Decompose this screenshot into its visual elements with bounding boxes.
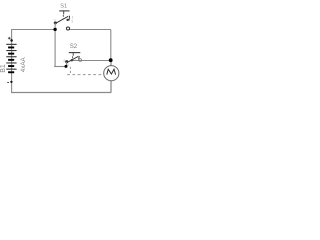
svg-text:2: 2 (54, 19, 56, 23)
S1 lower pin circle (66, 27, 69, 30)
svg-text:4xAA: 4xAA (20, 57, 27, 73)
battery plate short 3 (8, 59, 14, 61)
wire motor top pin (110, 60, 112, 66)
S2 left pin riser (66, 62, 68, 67)
S1 plunger stem (63, 11, 65, 14)
svg-text:2: 2 (63, 59, 65, 63)
wire S2 left horizontal (54, 66, 67, 68)
wire motor bottom pin (110, 81, 112, 93)
switch S1 (53, 4, 73, 31)
ratsnest dashed S2 to motor (69, 67, 71, 74)
battery plate long 3 (6, 56, 16, 57)
svg-text:S2: S2 (70, 44, 78, 50)
battery B1 (0, 37, 27, 83)
svg-text:1: 1 (74, 56, 76, 60)
S1 left pin riser (54, 23, 56, 30)
motor M1 (104, 58, 119, 80)
S1 right contact (66, 19, 68, 21)
battery bottom pin dot (10, 81, 12, 83)
battery top pin dot (10, 39, 13, 42)
S2 left contact (65, 60, 68, 63)
switch S2 (63, 44, 81, 68)
wire right vertical (110, 30, 112, 61)
motor junction dot (109, 58, 113, 62)
battery plate long 2 (6, 50, 16, 51)
S1 junction dot (53, 28, 56, 31)
battery minus sign (7, 81, 9, 83)
S2 lever end tick (78, 56, 81, 61)
battery plate short 5 (8, 71, 14, 73)
battery plate long 1 (6, 44, 16, 45)
S2 junction dot (65, 65, 68, 68)
S1 plunger dashed link (62, 15, 64, 19)
battery plus sign (8, 37, 11, 40)
motor letter M (107, 69, 116, 74)
S1 left contact (54, 21, 57, 24)
svg-text:S1: S1 (60, 4, 67, 10)
wire left vertical (11, 30, 13, 94)
S2 lever (68, 56, 79, 62)
motor body circle (104, 66, 119, 81)
battery plate long 5 (6, 69, 16, 70)
battery plate short 4 (8, 65, 14, 67)
wire top right (70, 29, 111, 31)
battery plate short 2 (8, 53, 14, 55)
S2 plunger stem (72, 53, 74, 56)
S2 right contact (71, 59, 73, 61)
S1 plunger cap (59, 10, 69, 12)
S2 plunger dashed link (72, 56, 74, 60)
wire S2 branch vertical (54, 30, 57, 67)
S1 lever end tick (68, 16, 71, 21)
wire top left (11, 29, 54, 31)
svg-text:B1: B1 (0, 64, 7, 73)
wire S2 output to motor junction (73, 60, 111, 62)
battery plate long 4 (6, 62, 16, 63)
wire bottom (11, 92, 111, 94)
svg-text:3: 3 (71, 20, 73, 24)
S1 lever (56, 16, 68, 23)
S2 lower pin circle (79, 59, 82, 62)
S2 plunger cap (69, 52, 81, 54)
battery plate short 1 (8, 47, 14, 49)
